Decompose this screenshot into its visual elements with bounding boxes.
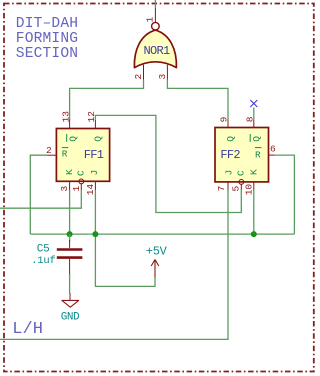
wire NOR1 output to top edge bbox=[154, 0, 156, 9]
pin 3 stub (NOR input B) bbox=[166, 65, 168, 80]
svg-text:13: 13 bbox=[60, 111, 71, 123]
svg-text:J: J bbox=[89, 170, 100, 176]
svg-text:9: 9 bbox=[219, 116, 230, 122]
capacitor C5 top lead bbox=[69, 234, 71, 241]
svg-text:Q: Q bbox=[251, 136, 262, 142]
svg-text:14: 14 bbox=[85, 184, 96, 196]
title text DIT-DAH FORMING SECTION bbox=[16, 16, 78, 62]
FF1 pin 13 stub bbox=[69, 120, 71, 129]
+5V power symbol arrow bbox=[151, 260, 159, 278]
svg-text:FORMING: FORMING bbox=[16, 31, 78, 47]
svg-text:.1uf: .1uf bbox=[31, 255, 55, 267]
FF2 pin 5 stub bbox=[240, 184, 242, 190]
wire FF1 clock to left edge bbox=[0, 190, 81, 208]
svg-text:J: J bbox=[224, 170, 235, 176]
svg-text:R: R bbox=[255, 150, 261, 161]
flip-flop FF1 body bbox=[56, 129, 109, 182]
FF1 pin 3 stub bbox=[69, 181, 71, 190]
svg-text:Q: Q bbox=[67, 136, 78, 142]
wire FF2 pin7 J to bottom left edge bbox=[0, 190, 228, 339]
svg-text:3: 3 bbox=[157, 74, 168, 80]
flip-flop FF2 body bbox=[215, 128, 269, 182]
svg-text:2: 2 bbox=[133, 74, 144, 80]
wire main bus bbox=[30, 233, 294, 235]
wire +5V branch bbox=[95, 234, 155, 286]
wire NOR pin3 to FF2 pin9 bbox=[167, 80, 228, 121]
capacitor C5 bottom lead bbox=[69, 259, 71, 301]
FF2 pin 5 clock bubble bbox=[239, 180, 244, 185]
FF2 pin 7 stub bbox=[227, 182, 229, 190]
svg-text:5: 5 bbox=[230, 186, 241, 192]
svg-text:FF2: FF2 bbox=[220, 148, 240, 162]
NOR1 gate body bbox=[134, 30, 176, 68]
svg-text:L/H: L/H bbox=[12, 320, 43, 339]
pin 1 stub bbox=[154, 9, 156, 23]
FF1 pin 1 clock bubble bbox=[79, 179, 84, 184]
FF2 pin 10 stub bbox=[253, 182, 255, 190]
wire FF1 pin2 reset to bus bbox=[30, 155, 47, 234]
wire NOR pin2 to FF1 pin13 bbox=[70, 80, 144, 121]
FF1 pin 12 stub bbox=[94, 120, 96, 129]
svg-text:C: C bbox=[75, 170, 86, 176]
svg-text:K: K bbox=[248, 169, 259, 175]
junction node at FF1 K / C5 bbox=[67, 231, 73, 237]
NOR1 output bubble bbox=[152, 22, 160, 30]
FF2 pin 9 stub bbox=[227, 120, 229, 128]
FF2 pin 8 stub bbox=[253, 120, 255, 128]
svg-text:R: R bbox=[62, 149, 68, 160]
FF1 pin name Rbar bbox=[62, 148, 69, 160]
svg-text:+5V: +5V bbox=[146, 244, 168, 258]
svg-text:DIT–DAH: DIT–DAH bbox=[16, 16, 78, 32]
wire FF1 pin12 Q to FF2 pin5 clock bbox=[95, 115, 241, 212]
junction node at FF1 J / +5V bbox=[92, 231, 98, 237]
svg-text:1: 1 bbox=[71, 186, 82, 192]
svg-text:SECTION: SECTION bbox=[16, 46, 78, 62]
svg-text:C5: C5 bbox=[37, 243, 50, 255]
FF1 pin 2 stub bbox=[47, 154, 56, 156]
wire FF1 pin3 K down to bus bbox=[69, 190, 71, 234]
FF1 pin name Qbar bbox=[67, 134, 79, 142]
svg-text:1: 1 bbox=[145, 17, 156, 23]
wire FF2 pin6 reset loop to bus bbox=[275, 155, 295, 234]
no-connect X on pin 8 bbox=[250, 100, 257, 107]
svg-text:6: 6 bbox=[270, 144, 276, 155]
FF1 pin 1 stub bbox=[80, 184, 82, 190]
FF2 pin name Qbar bbox=[250, 134, 262, 142]
svg-text:NOR1: NOR1 bbox=[144, 44, 171, 58]
svg-text:7: 7 bbox=[216, 186, 227, 192]
pin 2 stub (NOR input A) bbox=[143, 65, 145, 80]
wire FF1 pin14 J down to bus bbox=[94, 190, 96, 234]
capacitor C5 plates bbox=[57, 250, 83, 258]
svg-text:Q: Q bbox=[225, 136, 236, 142]
svg-text:K: K bbox=[64, 169, 75, 175]
svg-text:Q: Q bbox=[92, 136, 103, 142]
svg-text:C: C bbox=[235, 170, 246, 176]
svg-text:3: 3 bbox=[59, 186, 70, 192]
svg-text:FF1: FF1 bbox=[84, 148, 104, 162]
svg-text:10: 10 bbox=[244, 184, 255, 196]
svg-text:GND: GND bbox=[61, 312, 80, 324]
FF2 pin 6 stub bbox=[269, 154, 275, 156]
wire stub above pin 8 bbox=[253, 108, 255, 120]
junction node at FF2 K bbox=[251, 231, 257, 237]
wire FF2 pin10 K down to bus bbox=[253, 190, 255, 234]
FF2 pin name Rbar bbox=[255, 148, 262, 161]
FF1 pin 14 stub bbox=[94, 181, 96, 190]
ground symbol bbox=[62, 300, 79, 307]
